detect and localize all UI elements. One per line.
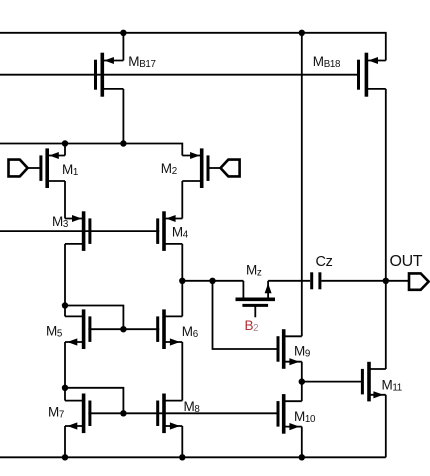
svg-text:MB17: MB17 (128, 54, 155, 70)
svg-text:B2: B2 (245, 318, 259, 334)
wire M9 gate feed (213, 281, 277, 349)
node ground rail / M7 source (62, 454, 68, 460)
node Z branch to M9 gate (209, 278, 215, 284)
svg-text:M7: M7 (48, 404, 64, 420)
transistor Mz (236, 281, 276, 318)
wire M9 drain drop from top rail (301, 33, 303, 337)
wire M10 source to ground rail (301, 427, 303, 458)
svg-text:M10: M10 (294, 409, 316, 425)
svg-text:M9: M9 (294, 343, 310, 359)
svg-text:M8: M8 (184, 399, 201, 415)
wire M8 source to ground rail (181, 426, 183, 457)
wire top supply rail (0, 33, 386, 61)
wire node A to M11 gate (302, 381, 361, 383)
transistor M10 (278, 394, 302, 434)
transistor M5 (65, 309, 90, 349)
wire ground rail (0, 456, 386, 458)
wire M11 source to ground rail (385, 395, 387, 458)
svg-text:M3: M3 (52, 214, 69, 230)
output port symbol OUT (409, 273, 429, 289)
wire MB18 source to OUT node (385, 89, 387, 369)
wire M9 source to M10 drain (301, 362, 303, 402)
wire first-stage rail (0, 144, 182, 156)
svg-text:Cz: Cz (316, 254, 333, 270)
node first-stage rail / M1 drain (62, 140, 68, 146)
node M7/M8 gate tap (120, 410, 126, 416)
node junction dots (62, 30, 389, 461)
node top rail / M9 drain column (299, 30, 305, 36)
node Z at M4/M6 column (179, 278, 185, 284)
transistor M6 (158, 309, 183, 349)
wire M7/M8/M10 gate line (88, 412, 276, 414)
wire MB17 source to first-stage rail (122, 89, 124, 144)
transistor MB17 (96, 53, 124, 97)
input port symbol IN+ (9, 160, 41, 177)
node OUT (383, 278, 389, 284)
transistor M2 (182, 148, 208, 188)
wire Cz to OUT (321, 280, 409, 282)
wire M1 source to M3 drain (64, 181, 66, 219)
transistor M4 (158, 211, 183, 251)
wire MB17 drain drop (122, 33, 124, 61)
node first-stage rail / MB17 source (120, 140, 126, 146)
svg-text:M6: M6 (182, 324, 199, 340)
svg-text:Mz: Mz (246, 262, 262, 278)
node ground rail / M10 source (299, 454, 305, 460)
wire M5 source to M7 drain (64, 342, 66, 401)
node M7 diode tap (62, 385, 68, 391)
node ground rail / M8 source (179, 454, 185, 460)
input port symbol IN- (208, 160, 240, 177)
svg-text:MB18: MB18 (313, 54, 341, 70)
svg-text:M5: M5 (46, 324, 63, 340)
transistor M11 (362, 362, 385, 402)
wire M4 source to M6 drain (181, 244, 183, 317)
wire M7 source to ground rail (64, 426, 66, 457)
svg-text:M2: M2 (161, 161, 177, 177)
wire M3/M4 gate line (0, 230, 159, 232)
wire M2 source to M4 drain (181, 181, 183, 219)
wire node Z left segment (182, 280, 243, 282)
wire M1 drain drop (64, 144, 66, 156)
wire M5/M6 gate line (88, 328, 159, 330)
transistor M9 (278, 329, 302, 369)
transistor MB18 (359, 53, 386, 97)
svg-text:M4: M4 (172, 225, 189, 241)
svg-text:M11: M11 (382, 378, 402, 394)
node M5/M6 gate tap (120, 326, 126, 332)
node top rail / MB17 drain (120, 30, 126, 36)
transistor M3 (65, 211, 90, 251)
transistor M7 (65, 394, 90, 434)
wire M5 diode connection (65, 306, 123, 330)
wire bias gate line MB17/MB18 (0, 74, 357, 76)
capacitor Cz (312, 272, 320, 289)
svg-text:OUT: OUT (390, 253, 423, 270)
transistor M1 (41, 148, 65, 188)
wire M3 source to M5 drain (64, 244, 66, 317)
transistor M8 (158, 394, 183, 434)
wire M7 diode connection (65, 388, 123, 414)
wire M6 source to M8 drain (181, 342, 183, 401)
wire Mz drain to Cz (268, 280, 310, 282)
node M5 diode tap (62, 302, 68, 308)
node A M9 source / M11 gate (299, 378, 305, 384)
svg-text:M1: M1 (62, 162, 78, 178)
